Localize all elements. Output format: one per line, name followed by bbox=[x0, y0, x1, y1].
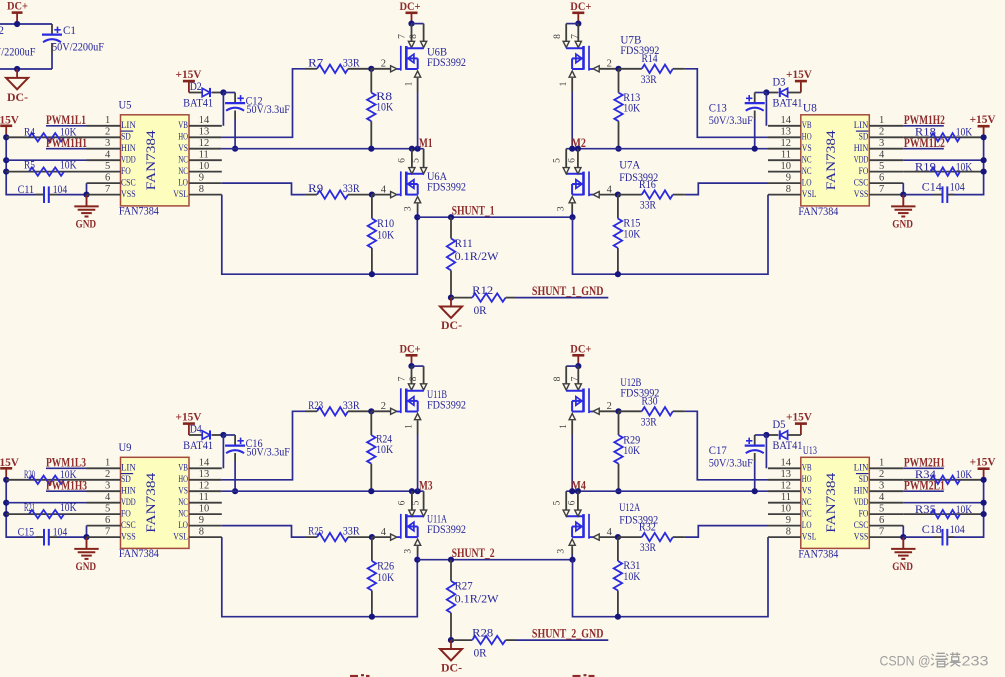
svg-text:7: 7 bbox=[879, 184, 884, 195]
svg-text:NC: NC bbox=[178, 497, 188, 507]
svg-text:50V/3.3uF: 50V/3.3uF bbox=[246, 444, 290, 458]
junction M-drainA bbox=[409, 488, 415, 494]
svg-text:VB: VB bbox=[178, 120, 188, 130]
svg-text:0.1R/2W: 0.1R/2W bbox=[455, 592, 500, 606]
capacitor C16 50V/3.3uF bbox=[225, 435, 290, 491]
svg-text:6: 6 bbox=[568, 158, 578, 163]
pin 1 source right bbox=[559, 71, 575, 92]
junction gateB left bbox=[368, 408, 374, 414]
svg-text:10K: 10K bbox=[623, 569, 640, 583]
power DC+ left column bbox=[400, 341, 421, 366]
svg-text:10: 10 bbox=[781, 161, 792, 172]
svg-text:50V/3.3uF: 50V/3.3uF bbox=[709, 113, 753, 127]
resistor R31 10K bbox=[614, 537, 641, 617]
svg-text:R20: R20 bbox=[24, 467, 35, 481]
junction R-VS left bbox=[368, 488, 374, 494]
resistor R23 33R bbox=[305, 398, 371, 416]
svg-text:+15V: +15V bbox=[786, 409, 812, 423]
svg-text:14: 14 bbox=[199, 115, 210, 126]
junction gateB right bbox=[615, 408, 621, 414]
wire gate pin low right bbox=[593, 527, 618, 540]
power DC+ right column bbox=[570, 341, 591, 366]
svg-text:+15V: +15V bbox=[0, 455, 19, 469]
power +15V rail left bbox=[0, 455, 19, 480]
junction rail-R5 bbox=[3, 169, 9, 175]
resistor R4 10K bbox=[6, 124, 86, 141]
svg-text:U5: U5 bbox=[119, 97, 132, 111]
pin 3 source right bbox=[557, 539, 576, 554]
wire gate pin low right bbox=[593, 184, 618, 197]
svg-text:CSC: CSC bbox=[121, 178, 136, 188]
diode D2 BAT41 bbox=[183, 79, 223, 110]
svg-text:VS: VS bbox=[178, 143, 188, 153]
svg-text:LIN: LIN bbox=[121, 120, 136, 130]
svg-text:6: 6 bbox=[398, 500, 408, 505]
wire gate pin high-side bbox=[371, 59, 397, 72]
svg-text:8: 8 bbox=[786, 184, 791, 195]
svg-text:+15V: +15V bbox=[970, 112, 996, 126]
wire source to shunt right bbox=[571, 212, 573, 217]
pin 1 source right bbox=[559, 414, 575, 435]
pin 6 drain bbox=[398, 149, 416, 174]
svg-text:SHUNT_2: SHUNT_2 bbox=[452, 546, 495, 560]
wire pin6 CSC down right bbox=[902, 183, 904, 195]
junction DC+ bus bbox=[14, 21, 20, 27]
svg-text:R35: R35 bbox=[915, 502, 936, 516]
pin 1 source bbox=[405, 414, 421, 435]
svg-text:D2: D2 bbox=[190, 79, 202, 93]
pin 6 drain bbox=[398, 491, 416, 516]
svg-text:12: 12 bbox=[781, 138, 792, 149]
wire pin6 CSC down bbox=[86, 526, 88, 538]
svg-text:SHUNT_1: SHUNT_1 bbox=[452, 203, 495, 217]
junction boot node right bbox=[763, 432, 769, 438]
svg-text:FAN7384: FAN7384 bbox=[144, 129, 158, 190]
junction rail-VDD bbox=[3, 500, 9, 506]
svg-text:CSC: CSC bbox=[854, 520, 869, 530]
svg-text:1: 1 bbox=[105, 115, 110, 126]
svg-text:FDS3992: FDS3992 bbox=[427, 522, 466, 536]
clipped text remnant left bbox=[350, 674, 370, 677]
svg-text:LO: LO bbox=[178, 520, 188, 530]
pin 5 drain right bbox=[552, 149, 569, 174]
svg-text:DC-: DC- bbox=[441, 318, 462, 332]
svg-text:LO: LO bbox=[178, 178, 188, 188]
svg-text:C14: C14 bbox=[922, 180, 942, 194]
svg-text:VSS: VSS bbox=[854, 532, 869, 542]
op-amp U8 FAN7384 gate driver right bbox=[768, 100, 903, 218]
svg-text:VSL: VSL bbox=[173, 189, 188, 199]
svg-text:FAN7384: FAN7384 bbox=[119, 203, 159, 217]
svg-text:VB: VB bbox=[178, 463, 188, 473]
ground GND left bbox=[74, 537, 98, 573]
svg-text:FO: FO bbox=[121, 509, 131, 519]
junction shunt-R11 bbox=[448, 214, 454, 220]
svg-text:13: 13 bbox=[781, 127, 792, 138]
svg-text:CSDN @: CSDN @ bbox=[880, 652, 931, 668]
junction rail-R5 bbox=[3, 511, 9, 517]
svg-text:14: 14 bbox=[781, 115, 792, 126]
capacitor C11 104 bbox=[18, 182, 87, 203]
wire +15V rail vertical bbox=[6, 137, 43, 194]
svg-text:R16: R16 bbox=[639, 177, 656, 191]
resistor R9 33R bbox=[305, 181, 372, 199]
junction shunt right bbox=[569, 557, 575, 563]
junction cap-VS right bbox=[752, 146, 758, 152]
svg-text:NC: NC bbox=[802, 155, 812, 165]
svg-text:M3: M3 bbox=[419, 479, 433, 493]
op-amp U13 FAN7384 gate driver right bbox=[768, 443, 903, 561]
resistor R25 33R bbox=[305, 524, 372, 542]
junction R15-VSL bbox=[615, 614, 621, 620]
junction rail-R4 bbox=[3, 134, 9, 140]
wire HO to R gate bbox=[222, 411, 305, 480]
svg-text:R28: R28 bbox=[472, 625, 493, 639]
svg-text:LO: LO bbox=[802, 520, 812, 530]
svg-text:8: 8 bbox=[786, 526, 791, 537]
junction DC+ left bbox=[408, 21, 414, 27]
junction gateB left bbox=[368, 66, 374, 72]
svg-text:5: 5 bbox=[879, 161, 884, 172]
svg-text:11: 11 bbox=[199, 492, 209, 503]
svg-text:1: 1 bbox=[405, 424, 415, 429]
svg-text:HO: HO bbox=[802, 132, 812, 142]
svg-text:14: 14 bbox=[781, 458, 792, 469]
transistor U11A FDS3992 low-side left bbox=[397, 512, 466, 539]
svg-text:7: 7 bbox=[571, 376, 581, 381]
svg-text:BAT41: BAT41 bbox=[773, 438, 803, 452]
svg-text:11: 11 bbox=[781, 492, 791, 503]
svg-text:C1: C1 bbox=[63, 23, 76, 37]
wire pin3 PWM2L1 bbox=[903, 490, 944, 492]
svg-text:FAN7384: FAN7384 bbox=[824, 472, 838, 533]
junction rail-R18 bbox=[981, 477, 987, 483]
svg-text:50V/2200uF: 50V/2200uF bbox=[52, 40, 104, 54]
svg-text:9: 9 bbox=[199, 515, 204, 526]
junction boot node left bbox=[220, 432, 226, 438]
wire VS M2 node bbox=[566, 148, 768, 150]
svg-text:33R: 33R bbox=[343, 398, 360, 412]
wire DC+ to pin8 right bbox=[566, 365, 578, 367]
wire boot to VB right bbox=[765, 435, 767, 468]
resistor R14 33R bbox=[619, 51, 685, 86]
svg-text:GND: GND bbox=[76, 217, 97, 231]
svg-text:5: 5 bbox=[105, 161, 110, 172]
svg-text:C15: C15 bbox=[18, 524, 34, 538]
wire pin3 PWM1L2 bbox=[903, 148, 944, 150]
junction M-sourceB bbox=[415, 488, 421, 494]
op-amp U5 FAN7384 gate driver bbox=[87, 97, 222, 217]
svg-text:33R: 33R bbox=[641, 72, 657, 86]
junction DC+ right bbox=[575, 363, 581, 369]
wire SHUNT_1 bbox=[417, 216, 572, 218]
junction gateA right bbox=[615, 192, 621, 198]
svg-text:4: 4 bbox=[105, 492, 111, 503]
svg-text:50V/2200uF: 50V/2200uF bbox=[0, 45, 36, 59]
wire gate pin high right bbox=[593, 401, 619, 414]
transistor U12B FDS3992 high-side right bbox=[566, 375, 659, 413]
power DC- bus bbox=[6, 69, 28, 104]
svg-text:HO: HO bbox=[178, 474, 188, 484]
power DC- shunt bbox=[440, 640, 462, 674]
wire boot to VB bbox=[222, 93, 224, 126]
wire pin1 PWM2H1 bbox=[903, 467, 944, 469]
svg-text:VDD: VDD bbox=[121, 497, 136, 507]
svg-text:10K: 10K bbox=[60, 157, 77, 171]
svg-text:7: 7 bbox=[105, 184, 110, 195]
svg-text:2: 2 bbox=[607, 59, 612, 70]
wire LO to R gate bbox=[222, 526, 305, 538]
svg-text:5: 5 bbox=[412, 158, 422, 163]
wire boot to VB bbox=[222, 435, 224, 468]
wire R to LO right bbox=[685, 183, 768, 195]
svg-text:1: 1 bbox=[559, 81, 569, 86]
svg-text:4: 4 bbox=[381, 184, 387, 195]
svg-text:4: 4 bbox=[607, 527, 613, 538]
junction gnd node left bbox=[83, 534, 89, 540]
junction gateA right bbox=[615, 534, 621, 540]
resistor R13 10K bbox=[614, 69, 640, 149]
svg-text:104: 104 bbox=[950, 180, 965, 194]
svg-text:DC-: DC- bbox=[441, 661, 462, 675]
resistor R12 0R bbox=[451, 283, 516, 317]
wire PWM1H3 to pin3 bbox=[46, 490, 87, 492]
wire VSL return right bbox=[573, 537, 769, 617]
svg-text:33R: 33R bbox=[343, 55, 360, 69]
clipped text remnant right bbox=[573, 674, 595, 677]
power +15V (bootstrap diode) left bbox=[176, 410, 202, 436]
svg-text:VDD: VDD bbox=[121, 155, 136, 165]
svg-text:U13: U13 bbox=[803, 443, 817, 457]
svg-text:DC+: DC+ bbox=[400, 0, 421, 13]
power DC+ left column bbox=[400, 0, 421, 24]
svg-text:2: 2 bbox=[105, 127, 110, 138]
svg-text:NC: NC bbox=[802, 497, 812, 507]
svg-text:VDD: VDD bbox=[854, 497, 869, 507]
power +15V (bootstrap diode) right bbox=[786, 67, 812, 93]
wire +15V rail vertical bbox=[6, 480, 43, 537]
svg-text:10K: 10K bbox=[376, 99, 393, 113]
svg-text:7: 7 bbox=[397, 34, 407, 39]
svg-text:HIN: HIN bbox=[121, 143, 136, 153]
svg-text:SHUNT_2_GND: SHUNT_2_GND bbox=[532, 627, 604, 641]
svg-text:SD: SD bbox=[121, 474, 131, 484]
pin 3 source bbox=[404, 197, 421, 212]
diode D5 BAT41 bbox=[766, 417, 802, 452]
power DC- shunt bbox=[440, 298, 462, 332]
wire source to M node bbox=[417, 92, 419, 149]
wire HO to R gate bbox=[222, 69, 305, 138]
svg-text:5: 5 bbox=[412, 500, 422, 505]
junction R-VS right bbox=[615, 146, 621, 152]
svg-text:13: 13 bbox=[199, 127, 210, 138]
resistor R21 10K bbox=[6, 500, 86, 519]
svg-text:11: 11 bbox=[781, 149, 791, 160]
svg-text:SD: SD bbox=[859, 132, 869, 142]
junction cap-VS left bbox=[232, 488, 238, 494]
resistor R19 10K bbox=[903, 159, 983, 175]
pin 7 drain bbox=[397, 366, 414, 390]
power +15V rail left bbox=[0, 113, 19, 138]
wire gate pin high right bbox=[593, 59, 619, 72]
junction M-sourceB bbox=[415, 146, 421, 152]
power DC+ bus bbox=[7, 0, 28, 24]
resistor R34 10K bbox=[903, 467, 983, 484]
svg-text:7: 7 bbox=[105, 526, 110, 537]
resistor R27 0.1R/2W bbox=[447, 560, 499, 640]
svg-text:10: 10 bbox=[199, 161, 210, 172]
junction M-drainA bbox=[409, 146, 415, 152]
junction rail-R4 bbox=[3, 477, 9, 483]
power +15V (bootstrap diode) left bbox=[176, 67, 202, 93]
junction shunt left bbox=[414, 557, 420, 563]
svg-text:R4: R4 bbox=[24, 124, 35, 138]
svg-text:7: 7 bbox=[879, 526, 884, 537]
svg-text:3: 3 bbox=[879, 138, 884, 149]
wire R to HO right bbox=[685, 69, 768, 138]
resistor R29 10K bbox=[614, 411, 640, 491]
svg-text:10K: 10K bbox=[623, 443, 640, 457]
svg-text:SHUNT_1_GND: SHUNT_1_GND bbox=[532, 284, 604, 298]
resistor R35 10K bbox=[903, 502, 983, 518]
resistor R28 0R bbox=[451, 625, 516, 659]
svg-text:3: 3 bbox=[105, 480, 110, 491]
svg-text:4: 4 bbox=[879, 492, 885, 503]
svg-text:R12: R12 bbox=[472, 283, 493, 297]
svg-text:9: 9 bbox=[786, 172, 791, 183]
svg-text:33R: 33R bbox=[640, 540, 656, 554]
wire PWM1L1 to pin1 bbox=[46, 125, 87, 127]
svg-text:13: 13 bbox=[781, 469, 792, 480]
power +15V rail right bbox=[970, 454, 996, 480]
svg-text:VS: VS bbox=[802, 486, 812, 496]
svg-text:FAN7384: FAN7384 bbox=[824, 129, 838, 190]
svg-text:5: 5 bbox=[105, 503, 110, 514]
power +15V (bootstrap diode) right bbox=[786, 409, 812, 435]
junction R-VS left bbox=[368, 146, 374, 152]
pin 8 drain right bbox=[553, 24, 570, 48]
pin 5 drain bbox=[412, 149, 427, 174]
wire source to M node bbox=[417, 435, 419, 492]
svg-text:7: 7 bbox=[397, 376, 407, 381]
wire VS M1 node bbox=[222, 148, 424, 150]
capacitor C13 50V/3.3uF bbox=[709, 93, 765, 149]
svg-text:HIN: HIN bbox=[854, 143, 869, 153]
resistor R15 10K bbox=[614, 195, 641, 275]
svg-text:2: 2 bbox=[381, 59, 386, 70]
wire DC bus bottom bbox=[0, 68, 52, 70]
svg-text:R27: R27 bbox=[455, 579, 473, 593]
pin 6 drain right bbox=[568, 149, 581, 174]
wire +15V rail right vertical bbox=[950, 480, 984, 537]
svg-text:10K: 10K bbox=[956, 125, 973, 139]
watermark bbox=[880, 652, 989, 668]
svg-text:12: 12 bbox=[199, 480, 210, 491]
wire source to M node right bbox=[571, 92, 573, 149]
svg-text:+15V: +15V bbox=[0, 113, 19, 127]
transistor U6B FDS3992 high-side left bbox=[397, 45, 466, 71]
resistor R30 33R bbox=[619, 394, 685, 429]
svg-text:C18: C18 bbox=[922, 522, 942, 536]
svg-text:BAT41: BAT41 bbox=[183, 96, 213, 110]
svg-text:NC: NC bbox=[178, 155, 188, 165]
wire rail to pin4 VDD bbox=[6, 159, 86, 161]
svg-text:M1: M1 bbox=[419, 136, 433, 150]
svg-text:C11: C11 bbox=[18, 182, 34, 196]
svg-text:VSS: VSS bbox=[121, 532, 136, 542]
svg-text:GND: GND bbox=[76, 559, 97, 573]
resistor R11 0.1R/2W bbox=[447, 217, 499, 297]
wire rail to pin4 VDD bbox=[6, 502, 86, 504]
svg-text:5: 5 bbox=[552, 158, 562, 163]
svg-text:VSS: VSS bbox=[121, 189, 136, 199]
wire VSL return right bbox=[573, 195, 769, 275]
svg-text:10K: 10K bbox=[377, 228, 394, 242]
svg-text:10K: 10K bbox=[60, 500, 77, 514]
junction DC- bus bbox=[14, 66, 20, 72]
junction R-VS right bbox=[615, 488, 621, 494]
svg-text:3: 3 bbox=[105, 138, 110, 149]
power DC+ right column bbox=[570, 0, 591, 24]
resistor R16 33R bbox=[618, 177, 685, 212]
svg-text:9: 9 bbox=[786, 515, 791, 526]
svg-text:SD: SD bbox=[121, 132, 131, 142]
junction shunt left bbox=[414, 214, 420, 220]
svg-text:+15V: +15V bbox=[786, 67, 812, 81]
svg-text:6: 6 bbox=[879, 172, 884, 183]
svg-text:R21: R21 bbox=[24, 500, 35, 514]
svg-text:R5: R5 bbox=[24, 157, 35, 171]
svg-text:1: 1 bbox=[105, 458, 110, 469]
svg-text:3: 3 bbox=[879, 480, 884, 491]
svg-text:3: 3 bbox=[557, 549, 567, 554]
svg-text:LIN: LIN bbox=[121, 463, 136, 473]
ground GND left bbox=[74, 195, 98, 231]
svg-text:5: 5 bbox=[552, 500, 562, 505]
wire +15V rail right vertical bbox=[950, 137, 984, 194]
wire source to shunt bbox=[417, 555, 419, 560]
wire SHUNT_2 bbox=[417, 559, 572, 561]
wire DC+ to pin8 bbox=[412, 365, 424, 367]
svg-text:LO: LO bbox=[802, 178, 812, 188]
pin 3 source bbox=[404, 539, 421, 554]
resistor R10 10K bbox=[368, 195, 395, 275]
capacitor C14 104 bbox=[903, 180, 964, 203]
svg-text:0R: 0R bbox=[474, 646, 487, 660]
svg-text:33R: 33R bbox=[641, 414, 657, 428]
junction cap-VS right bbox=[752, 488, 758, 494]
svg-text:2: 2 bbox=[381, 401, 386, 412]
junction DC+ right bbox=[575, 21, 581, 27]
junction R11-R12 bbox=[448, 295, 454, 301]
wire pin1 PWM1H2 bbox=[903, 125, 944, 127]
junction M-sourceB right bbox=[569, 146, 575, 152]
wire DC+ to pin8 bbox=[412, 23, 424, 25]
svg-text:10K: 10K bbox=[376, 442, 393, 456]
wire DC+ to pin8 right bbox=[566, 23, 578, 25]
wire SHUNT_2_GND bbox=[516, 639, 608, 641]
capacitor C1 50V/2200uF bbox=[42, 23, 104, 69]
svg-text:NC: NC bbox=[802, 166, 812, 176]
svg-text:10K: 10K bbox=[377, 570, 394, 584]
junction rail-R18 bbox=[981, 134, 987, 140]
wire boot to cap right bbox=[755, 434, 767, 436]
junction M-sourceB right bbox=[569, 488, 575, 494]
svg-text:6: 6 bbox=[105, 172, 110, 183]
svg-text:1: 1 bbox=[879, 458, 884, 469]
svg-text:GND: GND bbox=[892, 217, 913, 231]
svg-text:2: 2 bbox=[607, 401, 612, 412]
